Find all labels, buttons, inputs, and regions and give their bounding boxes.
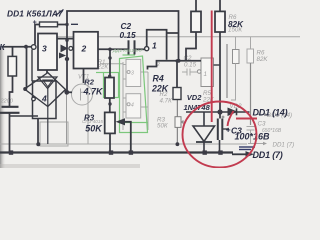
resistor R5 (hand, above pot) <box>173 88 181 100</box>
arrow to DD1 pin 14 (printed) <box>256 114 264 116</box>
wire node to R6 branch <box>147 30 167 60</box>
wire R3 bottom to bus <box>109 133 111 152</box>
resistor R3 (hand) <box>105 112 115 133</box>
green frame around DD1.3/DD1.4 <box>120 56 148 133</box>
underline marks 100*16V <box>239 146 255 148</box>
svg-text:C3: C3 <box>258 121 266 128</box>
wire +V top rail <box>67 11 179 92</box>
capacitor C3 (printed) <box>247 126 255 128</box>
svg-text:0.15: 0.15 <box>184 61 197 68</box>
gate DD1.2 (hand box 2) <box>74 32 99 69</box>
resistor R2 (hand) <box>105 78 114 99</box>
transistor VT1 (printed) <box>72 84 93 105</box>
svg-text:4: 4 <box>41 94 47 104</box>
svg-text:4.7К: 4.7К <box>160 98 173 105</box>
svg-text:+: + <box>33 20 37 27</box>
ground bus <box>0 151 233 153</box>
wire bridge to gray rail <box>37 119 39 145</box>
diode VD2 (hand, small) <box>228 108 237 115</box>
svg-text:R3: R3 <box>84 114 95 123</box>
resistor R6 (printed, left) <box>233 50 240 64</box>
wire (printed) R3 pot lead <box>176 100 178 145</box>
wire input node K <box>3 46 31 48</box>
wire left resistor top lead <box>12 47 14 57</box>
wire R6b top lead (hand) <box>219 0 221 11</box>
red stray arc <box>228 111 234 126</box>
wire (printed) below R6a <box>231 64 236 101</box>
node bubble DD1.1 input <box>145 47 149 51</box>
svg-text:DD1 К561ЛА7: DD1 К561ЛА7 <box>7 9 63 19</box>
bridge center line <box>47 89 49 119</box>
wire R5 right lead <box>58 24 68 26</box>
scan left edge band <box>0 46 6 168</box>
wire between gates <box>57 38 74 40</box>
printed box (lower-left device outline) <box>40 122 68 146</box>
wire DD1.2 output to C2 <box>98 48 128 50</box>
red annotation vertical line <box>211 11 213 123</box>
resistor R5 (feedback, hand) <box>40 22 58 27</box>
wire R5 left lead <box>35 25 40 45</box>
gate DD1.3 (hand box 3) <box>38 34 57 71</box>
svg-text:DD1 (7): DD1 (7) <box>253 150 283 160</box>
wire DD1.1 output stub <box>214 64 221 66</box>
wire C1 to ground bus <box>9 113 11 153</box>
capacitor C2 (hand) <box>128 40 130 54</box>
wire bridge bottom stub <box>47 119 49 145</box>
svg-text:1: 1 <box>152 40 157 50</box>
gray rail top <box>55 36 300 38</box>
red underline DD1 (14) <box>236 118 257 120</box>
wire to VT1 gate <box>67 91 72 93</box>
wire VD2 node horizontal <box>186 111 250 113</box>
resistor R6 82K (hand, right) <box>215 11 225 32</box>
diode VD2 1N4748 (hand, large) <box>203 112 205 126</box>
svg-text:1: 1 <box>204 71 207 78</box>
gate DD1.1 input bubble <box>197 70 201 74</box>
svg-text:82K: 82K <box>257 56 269 63</box>
resistor R6 (printed, right) <box>247 49 254 63</box>
wire R6a top lead (hand) <box>195 0 197 11</box>
svg-text:3: 3 <box>131 71 134 77</box>
wire (printed) below R6b to C3 <box>250 63 252 125</box>
wire C2 to input node <box>135 48 145 50</box>
gate DD1.4 input bubble <box>32 97 36 101</box>
bridge diode triangles <box>38 77 57 89</box>
svg-text:4.7K: 4.7K <box>83 86 105 96</box>
scan bottom edge band <box>0 164 140 168</box>
R3 wiper arrow <box>181 121 186 124</box>
diode pair between gates <box>61 45 67 51</box>
green tick lines <box>96 72 104 74</box>
wire left resistor to C1 <box>10 76 13 107</box>
wire gates output row <box>148 61 202 70</box>
resistor input (left, hand) <box>8 56 17 76</box>
gate DD1.3 input bubble <box>31 45 36 50</box>
gate DD1.4 (hand box 4) <box>33 81 57 119</box>
red annotation ellipse <box>183 102 257 168</box>
svg-text:ДД1 К561ЛА7: ДД1 К561ЛА7 <box>112 48 143 53</box>
wire DD1.2 bottom to VT1 <box>83 69 85 84</box>
potentiometer R3 (printed) <box>175 117 181 128</box>
svg-text:4: 4 <box>131 103 134 109</box>
wires (printed) gate connections <box>141 71 148 73</box>
wire R5 pot top lead <box>176 61 178 88</box>
svg-text:К: К <box>0 42 6 52</box>
svg-text:VD2: VD2 <box>187 93 202 102</box>
wire input bubble to gate DD1.4 <box>31 50 33 82</box>
svg-text:50K: 50K <box>85 123 103 133</box>
green frame around R2 resistor <box>104 73 119 98</box>
wire (printed) R6b top lead <box>250 37 252 49</box>
wire R2 to R3 <box>109 98 111 113</box>
gate DD1.3 (printed box 3) <box>126 59 141 86</box>
svg-text:DD1 (7): DD1 (7) <box>273 142 295 149</box>
wire R2 top lead <box>109 49 111 77</box>
svg-text:0.15: 0.15 <box>120 30 137 40</box>
svg-text:22K: 22K <box>151 83 169 93</box>
svg-text:2200: 2200 <box>0 99 14 105</box>
strike on 7 <box>56 10 64 16</box>
capacitor C1 2200u <box>2 106 19 108</box>
svg-text:DD1 (14): DD1 (14) <box>253 107 288 117</box>
gate DD1.1 (printed box 1) <box>201 58 214 87</box>
arrow to DD1 pin 7 (printed) <box>248 143 263 145</box>
gray bottom rail <box>0 143 247 145</box>
resistor R6 82K (hand, left) <box>191 11 201 32</box>
svg-text:R4: R4 <box>153 74 164 84</box>
svg-text:2: 2 <box>81 44 87 54</box>
svg-text:100*16В: 100*16В <box>235 132 271 142</box>
arrow to DD1 pin 7 (hand) <box>232 153 247 155</box>
diode bridge diamond <box>25 73 66 107</box>
svg-text:R2: R2 <box>84 77 94 86</box>
capacitor C2 (printed) <box>182 71 187 73</box>
svg-text:82K: 82K <box>228 20 244 29</box>
capacitor C3 100*16V (hand) <box>217 119 219 141</box>
svg-text:3: 3 <box>42 44 47 54</box>
wire (printed) R6a top lead <box>235 37 237 50</box>
gray printed labels <box>0 14 294 149</box>
wire input to bridge left node <box>26 47 28 89</box>
green frame inner line <box>120 122 149 124</box>
arrow annotation to R3 <box>124 122 131 151</box>
wire (printed) VD2 node <box>226 44 228 98</box>
dark handwritten labels <box>0 9 288 160</box>
wire R6b down to C3 <box>219 32 221 119</box>
svg-text:50К: 50К <box>157 122 168 129</box>
wire R6a bottom jog <box>186 32 196 61</box>
wire DD1.3 to bridge top <box>46 70 48 73</box>
gate DD1.4 (printed box 4) <box>126 94 141 118</box>
